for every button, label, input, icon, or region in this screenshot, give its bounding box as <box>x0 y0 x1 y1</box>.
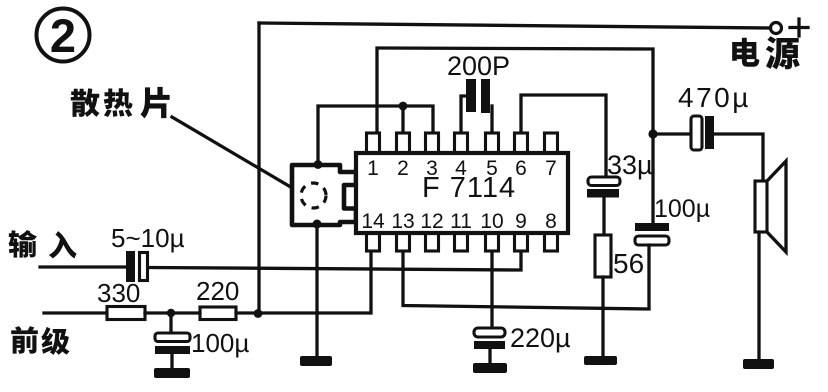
resistor 330 <box>107 307 145 320</box>
wire: input line left of coupling cap <box>40 265 127 268</box>
wire: R220 to supply-drop node to pin 14 <box>236 252 371 313</box>
leader line from label to heat sink <box>172 117 294 189</box>
svg-text:330: 330 <box>97 278 140 308</box>
svg-text:14: 14 <box>361 210 385 233</box>
svg-text:4: 4 <box>455 157 467 180</box>
op-amp IC U1 F7114 body <box>356 153 568 233</box>
figure label (2) circled <box>37 9 90 63</box>
svg-text:10: 10 <box>480 210 503 233</box>
svg-text:220: 220 <box>196 276 239 306</box>
wire: pin 1 to supply-side vertical <box>377 48 653 134</box>
wire: pin 5 lead <box>490 106 493 134</box>
ground (below heat sink) <box>300 356 332 366</box>
wire: R330 to node <box>145 311 171 314</box>
ground (below left 100u) <box>154 368 190 378</box>
label: input (CJK) <box>9 230 77 259</box>
svg-text:12: 12 <box>420 210 443 233</box>
node: wire from heat sink bottom <box>313 220 322 229</box>
wire: pin 13 line to 100u bottom <box>403 252 649 309</box>
svg-text:200P: 200P <box>447 51 510 81</box>
capacitor 100u (left, electrolytic) <box>155 313 190 374</box>
svg-text:5: 5 <box>486 157 498 180</box>
svg-text:13: 13 <box>391 210 414 233</box>
label: + <box>790 19 808 36</box>
svg-text:7: 7 <box>545 157 557 180</box>
label: power supply (CJK) <box>732 36 800 69</box>
svg-text:11: 11 <box>450 210 472 233</box>
ground (below 220u) <box>473 363 507 373</box>
svg-text:5~10µ: 5~10µ <box>111 223 185 253</box>
svg-text:9: 9 <box>515 210 527 233</box>
capacitor 220u (electrolytic) <box>474 328 505 369</box>
capacitor 200P plates <box>466 79 476 112</box>
svg-text:2: 2 <box>50 9 76 62</box>
node: junction supply feed / 100u / 470u <box>648 129 657 138</box>
wire: speaker to ground <box>757 232 760 366</box>
capacitor 100u (right, electrolytic) <box>635 223 669 307</box>
node: junction at supply drop <box>254 309 263 318</box>
svg-text:1: 1 <box>367 157 379 180</box>
svg-text:3: 3 <box>426 157 438 180</box>
pin numbers top 1-7 <box>367 157 557 180</box>
wire: input line to pin 9 <box>149 252 521 270</box>
ground (below speaker) <box>743 359 774 369</box>
wire: pin 2 stub drop <box>401 106 404 134</box>
wire: heat sink to ground <box>315 224 318 362</box>
resistor 220 <box>200 307 236 320</box>
svg-text:100µ: 100µ <box>654 195 710 223</box>
wire: node to 470u <box>653 132 691 135</box>
wire: pin 10 down to 220u <box>490 252 493 329</box>
pin numbers bottom 14-8 <box>361 210 557 233</box>
wire: 56 to ground <box>601 277 604 363</box>
svg-text:56: 56 <box>613 248 644 279</box>
wire: vertical drop from supply rail to lower node <box>257 23 260 314</box>
heat sink mounting hole (dashed) <box>301 183 326 208</box>
power terminal circle <box>771 23 782 34</box>
wire: node to R220 <box>171 311 200 314</box>
node: junction above pin 2 <box>399 102 408 111</box>
ground (below 56) <box>584 356 617 365</box>
wire: node down to 100u <box>651 134 654 223</box>
wire: pins 2,3 to heat sink tab <box>318 106 433 162</box>
IC U1 pin stubs (top) <box>367 133 558 155</box>
resistor 56 <box>595 235 611 277</box>
svg-text:100µ: 100µ <box>191 328 249 358</box>
node: wire to heat sink top <box>314 160 323 169</box>
node: junction R330/R220/C100u <box>167 309 175 317</box>
IC U1 pin stubs (bottom) <box>367 231 558 251</box>
svg-text:8: 8 <box>545 210 557 233</box>
wire: pin 4 lead up <box>461 96 467 134</box>
wire: pre-stage line to R330 <box>44 311 107 314</box>
heat sink tab outline <box>292 165 356 225</box>
speaker <box>755 161 786 252</box>
capacitor 470u plates <box>691 116 702 150</box>
svg-text:6: 6 <box>515 157 527 180</box>
capacitor 5~10u (coupling) plates <box>126 251 135 282</box>
wire: 470u to speaker <box>714 134 763 181</box>
label: heat-sink (CJK) <box>71 87 170 119</box>
wire: V+ supply rail (top) <box>259 23 770 28</box>
wire: pin 6 to 33u <box>521 95 606 177</box>
svg-text:220µ: 220µ <box>510 323 571 353</box>
svg-text:2: 2 <box>397 157 409 180</box>
capacitor 33u (electrolytic) <box>587 177 620 235</box>
label: pre-stage (CJK) <box>11 326 69 355</box>
svg-text:470µ: 470µ <box>678 82 751 113</box>
